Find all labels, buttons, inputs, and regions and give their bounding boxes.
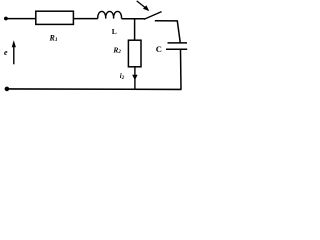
wire <box>122 18 145 20</box>
wire (bottom rail) <box>7 88 182 91</box>
switch annotation arrow <box>137 1 150 11</box>
wire (right of switch) <box>155 20 178 22</box>
wire (right side down to capacitor) <box>177 21 180 43</box>
switch S blade <box>144 12 162 20</box>
svg-text:R1: R1 <box>49 33 58 43</box>
resistor R1 <box>36 11 74 24</box>
node A (top-left terminal dot) <box>4 17 8 21</box>
wire <box>73 18 97 20</box>
svg-text:e: e <box>4 48 8 57</box>
current arrow i2 <box>132 75 137 81</box>
resistor R2 <box>128 40 141 67</box>
svg-text:L: L <box>112 27 117 36</box>
svg-text:i2: i2 <box>120 72 125 81</box>
source EMF arrow <box>12 40 16 64</box>
inductor L <box>98 11 122 18</box>
capacitor C <box>166 43 187 49</box>
svg-text:C: C <box>156 44 162 54</box>
wire (capacitor down to bottom rail) <box>180 49 183 89</box>
svg-text:R2: R2 <box>112 45 121 55</box>
node B (bottom-left terminal dot) <box>5 87 10 92</box>
wire (junction drop to R2) <box>134 19 136 40</box>
wire <box>6 18 36 20</box>
wire (R2 to bottom rail) <box>134 67 136 90</box>
